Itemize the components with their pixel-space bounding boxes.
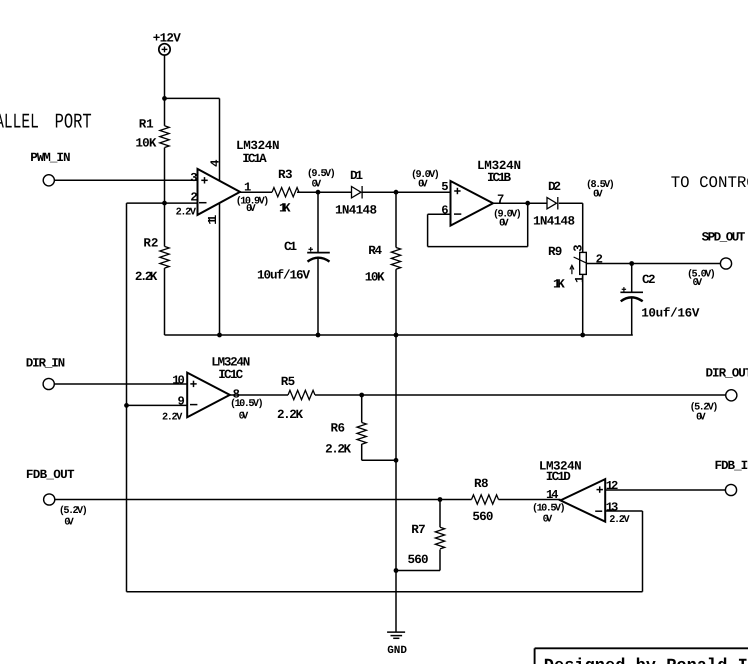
- svg-text:D1: D1: [350, 169, 363, 183]
- svg-text:R6: R6: [331, 422, 346, 436]
- svg-text:10K: 10K: [365, 270, 385, 284]
- svg-text:FDB_IN: FDB_IN: [715, 459, 748, 473]
- svg-text:0V: 0V: [64, 518, 74, 529]
- svg-text:PWM_IN: PWM_IN: [30, 151, 70, 165]
- svg-text:IC1B: IC1B: [487, 171, 511, 185]
- svg-text:DIR_IN: DIR_IN: [26, 357, 65, 371]
- svg-text:C1: C1: [284, 240, 297, 254]
- svg-text:2.2V: 2.2V: [609, 515, 630, 526]
- svg-text:D2: D2: [548, 180, 561, 194]
- svg-text:R7: R7: [411, 523, 426, 537]
- svg-text:SPD_OUT: SPD_OUT: [702, 230, 746, 244]
- svg-text:10: 10: [172, 373, 185, 387]
- svg-text:+12V: +12V: [153, 32, 181, 46]
- svg-text:1N4148: 1N4148: [335, 204, 377, 218]
- svg-text:0V: 0V: [693, 278, 703, 289]
- svg-text:560: 560: [472, 510, 493, 524]
- svg-text:IC1D: IC1D: [546, 470, 571, 484]
- svg-text:0V: 0V: [543, 515, 553, 526]
- svg-text:0V: 0V: [246, 204, 256, 215]
- svg-text:ALLEL: ALLEL: [0, 111, 39, 134]
- svg-text:1: 1: [573, 276, 587, 283]
- svg-text:2: 2: [190, 190, 197, 204]
- svg-text:FDB_OUT: FDB_OUT: [26, 468, 75, 482]
- svg-text:2.2K: 2.2K: [135, 270, 158, 284]
- svg-text:5: 5: [441, 180, 448, 194]
- svg-text:(5.2V): (5.2V): [59, 505, 88, 517]
- svg-text:(9.5V): (9.5V): [307, 168, 336, 180]
- svg-text:3: 3: [190, 171, 197, 185]
- svg-text:IC1C: IC1C: [218, 368, 243, 382]
- svg-text:TO CONTROLLER: TO CONTROLLER: [671, 174, 748, 192]
- svg-text:DIR_OUT: DIR_OUT: [706, 366, 748, 380]
- svg-text:0V: 0V: [499, 219, 509, 230]
- svg-text:4: 4: [209, 160, 223, 167]
- svg-text:9: 9: [178, 395, 185, 409]
- svg-text:2.2V: 2.2V: [176, 208, 197, 219]
- svg-text:560: 560: [408, 553, 429, 567]
- svg-text:1K: 1K: [279, 202, 291, 216]
- svg-text:PORT: PORT: [55, 111, 92, 134]
- svg-text:R8: R8: [474, 477, 489, 491]
- svg-text:2.2K: 2.2K: [277, 408, 303, 422]
- svg-text:Designed by Ronald I: Designed by Ronald I: [544, 657, 748, 664]
- svg-text:10uf/16V: 10uf/16V: [257, 269, 310, 283]
- svg-text:14: 14: [546, 488, 559, 502]
- svg-text:0V: 0V: [418, 180, 428, 191]
- svg-text:0V: 0V: [312, 180, 322, 191]
- svg-text:R5: R5: [281, 375, 296, 389]
- svg-text:0V: 0V: [239, 412, 249, 423]
- svg-text:11: 11: [206, 215, 220, 225]
- svg-text:13: 13: [606, 501, 619, 515]
- svg-text:2.2K: 2.2K: [325, 443, 351, 457]
- svg-text:IC1A: IC1A: [242, 152, 267, 166]
- svg-text:(10.5V): (10.5V): [532, 503, 566, 515]
- svg-text:0V: 0V: [696, 413, 706, 424]
- svg-text:GND: GND: [387, 645, 407, 657]
- svg-text:R4: R4: [368, 244, 382, 258]
- svg-text:2: 2: [596, 253, 603, 267]
- svg-text:6: 6: [441, 203, 448, 217]
- svg-text:(10.5V): (10.5V): [230, 398, 264, 410]
- svg-text:R1: R1: [139, 118, 154, 132]
- svg-text:C2: C2: [642, 273, 656, 287]
- svg-text:R9: R9: [548, 245, 562, 259]
- svg-text:10K: 10K: [135, 137, 156, 151]
- svg-text:3: 3: [572, 244, 586, 251]
- svg-text:LM324N: LM324N: [211, 355, 250, 369]
- svg-text:1: 1: [244, 180, 251, 194]
- svg-text:1N4148: 1N4148: [533, 215, 575, 229]
- svg-text:R3: R3: [278, 168, 293, 182]
- svg-text:12: 12: [606, 479, 619, 493]
- svg-text:0V: 0V: [593, 190, 603, 201]
- svg-text:R2: R2: [143, 236, 158, 250]
- svg-text:10uf/16V: 10uf/16V: [641, 307, 700, 321]
- svg-text:LM324N: LM324N: [236, 139, 280, 153]
- svg-text:2.2V: 2.2V: [162, 413, 183, 424]
- svg-text:7: 7: [497, 193, 504, 207]
- svg-text:1K: 1K: [553, 278, 565, 292]
